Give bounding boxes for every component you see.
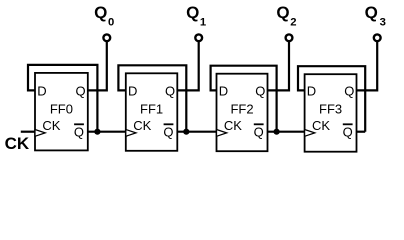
junction node at Q&#773; of FF1	[183, 129, 189, 135]
D flip-flop FF2	[217, 74, 268, 152]
wire: Q&#773; feedback of FF1 to D input (over the top)	[118, 65, 186, 131]
svg-text:Q: Q	[255, 84, 265, 99]
D flip-flop FF0	[35, 73, 88, 150]
svg-text:CK: CK	[224, 118, 242, 133]
svg-text:FF1: FF1	[140, 101, 163, 116]
svg-text:FF2: FF2	[230, 101, 253, 116]
wire: Q output of FF2 up to terminal Q2	[268, 41, 290, 90]
wire: Q output of FF1 up to terminal Q1	[177, 41, 198, 90]
terminal Q0 (output node)	[103, 34, 110, 41]
svg-text:Q: Q	[276, 3, 289, 22]
svg-text:CK: CK	[312, 118, 330, 133]
svg-text:1: 1	[200, 17, 206, 29]
svg-text:Q: Q	[76, 84, 86, 99]
junction node at Q&#773; of FF0	[94, 129, 100, 135]
wire: Q&#773; of FF3 to feedback corner	[357, 131, 366, 133]
clock input wire	[21, 131, 35, 133]
svg-text:Q: Q	[343, 124, 353, 139]
svg-text:Q: Q	[165, 84, 175, 99]
svg-text:Q: Q	[344, 84, 354, 99]
wire: Q&#773; of FF2 to CK of FF3	[268, 131, 305, 133]
svg-text:CK: CK	[42, 118, 60, 133]
terminal Q3 (output node)	[374, 34, 381, 41]
D flip-flop FF3	[305, 74, 357, 152]
D flip-flop FF1	[126, 73, 178, 151]
wire: Q output of FF3 up to terminal Q3	[357, 41, 378, 90]
svg-text:Q: Q	[163, 124, 173, 139]
svg-text:Q: Q	[74, 124, 84, 139]
svg-text:3: 3	[380, 17, 386, 29]
junction node at Q&#773; of FF2	[274, 129, 280, 135]
wire: Q&#773; feedback of FF3 to D input (over the top)	[298, 66, 365, 132]
svg-text:CK: CK	[5, 134, 30, 153]
terminal Q2 (output node)	[286, 34, 293, 41]
svg-text:Q: Q	[94, 3, 107, 22]
svg-text:D: D	[37, 84, 46, 99]
svg-text:D: D	[219, 84, 228, 99]
svg-text:Q: Q	[186, 3, 199, 22]
svg-text:Q: Q	[254, 124, 264, 139]
svg-text:0: 0	[108, 17, 114, 29]
svg-text:CK: CK	[133, 118, 151, 133]
svg-text:Q: Q	[365, 3, 378, 22]
svg-text:D: D	[128, 84, 137, 99]
svg-text:FF3: FF3	[319, 101, 342, 116]
wire: Q&#773; feedback of FF2 to D input (over the top)	[211, 66, 277, 132]
svg-text:D: D	[307, 84, 316, 99]
wire: Q&#773; feedback of FF0 to D input (over the top)	[28, 65, 97, 132]
wire: Q output of FF0 up to terminal Q0	[88, 41, 107, 90]
wire: Q&#773; of FF0 to CK of FF1	[88, 131, 126, 133]
svg-text:FF0: FF0	[50, 101, 73, 116]
svg-text:2: 2	[290, 17, 296, 29]
wire: Q&#773; of FF1 to CK of FF2	[177, 131, 216, 133]
terminal Q1 (output node)	[195, 34, 202, 41]
